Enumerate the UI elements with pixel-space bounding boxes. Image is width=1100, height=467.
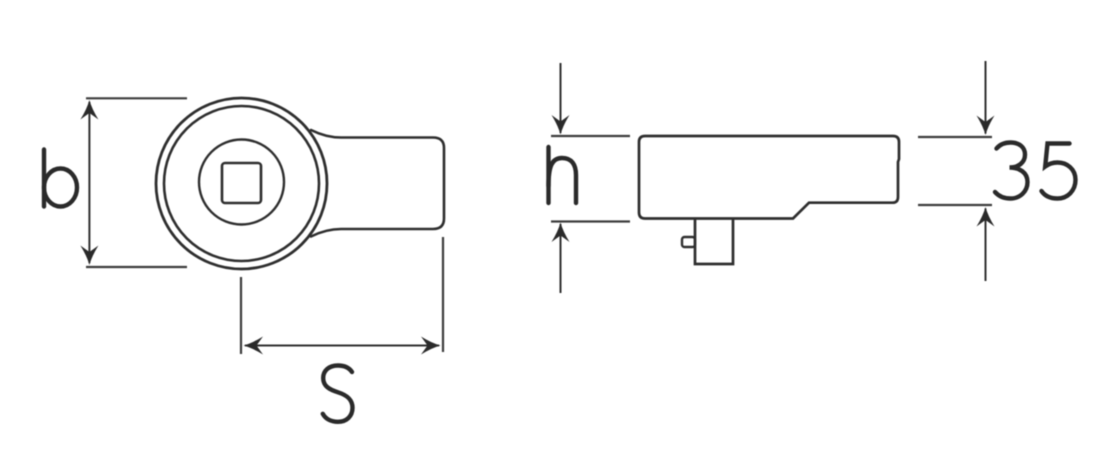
b bottom extension line	[86, 266, 187, 268]
letter S	[323, 366, 353, 422]
b dimension arrow line	[88, 102, 90, 263]
35 bottom arrow line	[985, 209, 987, 282]
h top arrowhead	[552, 115, 570, 135]
35 top arrow line	[985, 61, 987, 134]
h bottom extension line	[551, 220, 630, 222]
h top extension line	[551, 135, 630, 137]
letter b	[44, 150, 77, 207]
inner rim circle	[164, 106, 319, 261]
S left arrowhead	[244, 337, 264, 355]
digit 3	[995, 143, 1028, 199]
S right extension line	[442, 237, 444, 352]
b top arrowhead	[80, 100, 98, 120]
35 top arrowhead	[977, 116, 995, 136]
letter h	[549, 147, 577, 203]
detent pin	[682, 237, 695, 247]
outer circle	[156, 98, 327, 269]
b top extension line	[86, 97, 187, 99]
middle circle	[199, 140, 284, 225]
square drive	[695, 220, 733, 265]
35 bottom arrowhead	[977, 207, 995, 227]
tang outline	[311, 130, 444, 237]
b bottom arrowhead	[80, 246, 98, 266]
h bottom arrow line	[560, 224, 562, 293]
S left extension line	[240, 277, 242, 354]
35 top extension line	[918, 136, 992, 138]
S dimension line	[245, 345, 439, 347]
digit 5	[1042, 144, 1076, 199]
square hole	[222, 163, 261, 203]
body outline (side view)	[639, 136, 899, 219]
S right arrowhead	[421, 337, 441, 355]
h bottom arrowhead	[552, 223, 570, 243]
h top arrow line	[560, 63, 562, 133]
35 bottom extension line	[918, 204, 992, 206]
